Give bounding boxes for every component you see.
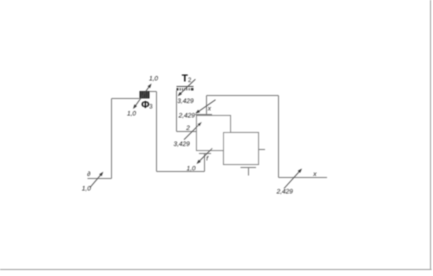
wire: middle vertical drop: [156, 92, 158, 172]
wire: bottom-left input horizontal: [88, 178, 112, 180]
wire: left vertical riser: [111, 99, 113, 179]
svg-text:x: x: [312, 171, 317, 178]
wire: out of Phi3 block top-right: [150, 91, 157, 93]
wire: bottom horizontal run: [157, 171, 205, 173]
arrow gain 2: [184, 122, 202, 140]
wire: stem up to bar under small block: [204, 154, 206, 172]
svg-text:Φ: Φ: [141, 100, 149, 111]
ground stem under big block: [248, 168, 250, 176]
wire: output horizontal: [279, 177, 328, 179]
wire: from T2 support down: [176, 91, 178, 132]
page border bottom: [0, 269, 432, 271]
block M2 (large rectangle, overlaps M1): [224, 133, 259, 165]
svg-text:1,0: 1,0: [127, 110, 136, 117]
wire: into Phi3 block bottom-left: [112, 98, 140, 100]
wire: terminal bar under small block: [199, 153, 211, 155]
wire: big block right stub: [259, 149, 266, 151]
wire: top horizontal run: [207, 95, 279, 97]
wire: terminal bar above small block: [195, 114, 212, 116]
wire: vertical from top run down to x bar: [206, 96, 208, 115]
svg-text:x: x: [207, 105, 212, 112]
svg-text:1,0: 1,0: [187, 166, 196, 173]
svg-text:3,429: 3,429: [174, 141, 191, 148]
svg-text:T: T: [182, 74, 188, 85]
page border right: [430, 0, 432, 270]
arrow x output: [284, 169, 302, 189]
svg-text:2,429: 2,429: [178, 112, 196, 119]
svg-text:2: 2: [185, 125, 190, 132]
wire: into small block left side: [177, 131, 197, 133]
svg-text:1,0: 1,0: [82, 186, 91, 193]
wire: right vertical drop: [278, 96, 280, 178]
svg-text:3,429: 3,429: [177, 98, 194, 105]
support symbol T2 (line with hatch row): [177, 87, 194, 91]
arrow delta input: [90, 172, 103, 188]
svg-text:2,429: 2,429: [276, 188, 294, 195]
arrow Phi3 (double headed): [133, 84, 152, 110]
arrow x upper: [195, 100, 215, 114]
svg-text:∂: ∂: [87, 171, 90, 178]
support block Phi3 (hatched): [140, 91, 150, 99]
arrow f: [197, 148, 213, 164]
ground bar under big block: [241, 167, 257, 169]
arrow T2 value: [178, 79, 196, 96]
svg-text:1,0: 1,0: [149, 76, 158, 83]
block M1 (small rectangle): [197, 116, 231, 151]
